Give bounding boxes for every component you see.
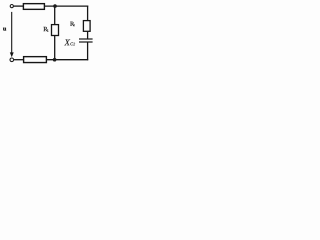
wire: bottom terminal to bottom resistor bbox=[14, 59, 24, 61]
resistor R2 bbox=[83, 21, 90, 32]
wire: top resistor to top-right corner bbox=[44, 5, 88, 7]
label R2 bbox=[70, 22, 74, 26]
label u bbox=[3, 28, 6, 31]
capacitor C2 bottom plate bbox=[79, 41, 93, 43]
wire: R1 to bottom wire bbox=[54, 36, 56, 61]
wire: top terminal to top resistor bbox=[14, 5, 24, 7]
wire: right branch down from top-right corner to R2 bbox=[87, 6, 89, 21]
voltage arrow head bbox=[10, 52, 14, 57]
wire: capacitor to bottom-right corner bbox=[87, 42, 89, 60]
resistor R1 bbox=[52, 25, 59, 36]
terminal: top-left open circle bbox=[10, 5, 13, 8]
resistor (bottom series box) bbox=[24, 57, 47, 63]
terminal: bottom-left open circle bbox=[10, 58, 14, 62]
wire: R2 to capacitor C2 bbox=[87, 31, 89, 39]
capacitor C2 top plate bbox=[79, 38, 93, 40]
label XC2 bbox=[64, 40, 75, 46]
resistor (top series box) bbox=[23, 4, 44, 10]
voltage arrow shaft for u bbox=[11, 12, 13, 53]
node: junction dot bottom bbox=[53, 58, 57, 62]
wire: bottom resistor to bottom-right corner bbox=[46, 59, 88, 61]
label R1 bbox=[44, 27, 49, 32]
wire: junction A down to R1 bbox=[54, 6, 56, 24]
node: junction dot at A (top) bbox=[53, 4, 57, 8]
